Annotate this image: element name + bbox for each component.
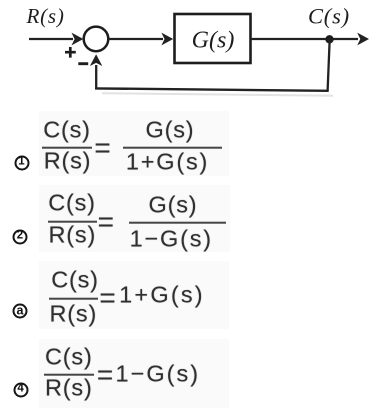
node: takeoff point <box>325 35 333 43</box>
option 3 equals <box>99 284 116 312</box>
option 3 marker <box>13 304 28 319</box>
wire: block to output <box>251 33 370 46</box>
block label G(s) <box>192 27 235 53</box>
option 2 right fraction numerator G(s) <box>149 193 198 217</box>
wire: feedback bottom run <box>95 88 329 90</box>
svg-text:G(s): G(s) <box>192 27 235 53</box>
option 3 fraction C(s)/R(s) numerator <box>51 269 99 293</box>
option 2 right fraction bar <box>129 221 226 224</box>
option 2 fraction C(s)/R(s) numerator <box>48 191 96 215</box>
option 1 marker <box>14 155 29 170</box>
option 4 fraction bar <box>44 373 94 376</box>
block G1 <box>175 14 251 63</box>
option 2 fraction bar <box>48 220 97 223</box>
light scan background boxes behind formulas <box>39 111 229 176</box>
scan shadow artifact line <box>102 93 333 96</box>
node label C(s) <box>308 4 350 29</box>
option 4 marker <box>13 382 28 397</box>
option 1 fraction denominator <box>44 149 92 173</box>
option 2 marker <box>13 229 28 244</box>
option 4 fraction C(s)/R(s) numerator <box>45 345 93 369</box>
option 2 fraction denominator <box>49 224 97 248</box>
svg-text:R(s): R(s) <box>26 4 65 28</box>
option 4 expression 1-G(s) <box>116 362 200 386</box>
svg-text:C(s): C(s) <box>308 4 350 29</box>
option 1 fraction C(s)/R(s) numerator <box>43 118 91 142</box>
option 1 right fraction denominator 1+G(s) <box>126 150 209 174</box>
minus sign at feedback input <box>78 62 88 65</box>
option 1 fraction bar <box>42 146 92 149</box>
option 2 equals <box>98 208 115 236</box>
option 3 fraction bar <box>49 297 99 300</box>
option 1 right fraction numerator G(s) <box>146 118 195 142</box>
node label R(s) <box>26 4 65 28</box>
option 1 equals <box>94 134 111 162</box>
plus sign at summing input <box>65 47 76 58</box>
option 4 fraction denominator <box>45 377 93 401</box>
option 4 equals <box>97 361 114 389</box>
wire: summing junction to block <box>108 33 173 46</box>
wire: feedback down from takeoff <box>328 39 330 91</box>
wire: feedback up into summing junction <box>90 54 102 89</box>
option 3 expression 1+G(s) <box>119 283 205 307</box>
summing junction S1 <box>84 27 109 52</box>
option 3 fraction denominator <box>50 303 98 327</box>
option 2 right fraction denominator 1-G(s) <box>130 227 213 251</box>
wire: input to summing junction <box>29 33 83 46</box>
option 1 right fraction bar <box>123 146 222 149</box>
